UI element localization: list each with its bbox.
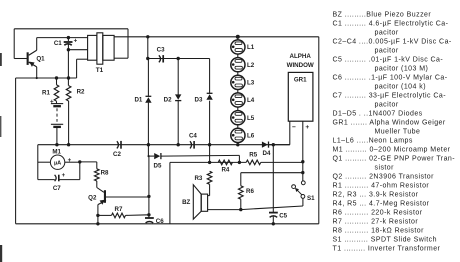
node R5 output junction [301, 160, 304, 163]
diode D1 [145, 96, 151, 102]
node battery mid-rail junction [55, 143, 58, 146]
svg-text:T1: T1 [96, 67, 104, 74]
node Q2 emitter R7 junction [96, 214, 99, 217]
transistor Q2 [98, 190, 106, 205]
resistor R1 [54, 78, 59, 103]
resistor R8 [95, 169, 100, 181]
svg-text:S1 .......... SPDT Slide Switc: S1 .......... SPDT Slide Switch [333, 236, 437, 243]
svg-text:D4: D4 [263, 150, 271, 157]
svg-text:T1 ......... Inverter Transfor: T1 ......... Inverter Transformer [333, 245, 441, 252]
wire R8 to Q2 base [97, 181, 104, 192]
wire R4-line down to ground [169, 162, 171, 223]
svg-text:D1–D5 . ..1N4007 Diodes: D1–D5 . ..1N4007 Diodes [333, 110, 423, 117]
svg-text:R6 .......... 220-k Resistor: R6 .......... 220-k Resistor [333, 209, 423, 216]
node lamp chain top [236, 35, 240, 39]
transistor Q1 [27, 50, 37, 67]
svg-text:Q1: Q1 [36, 55, 45, 62]
svg-text:L2: L2 [247, 62, 255, 69]
wire lamp stub L2-L3 [237, 72, 239, 76]
label T1 [96, 67, 104, 74]
resistor R3 [207, 171, 212, 184]
capacitor C7 [55, 175, 59, 182]
node HV rail junction [146, 35, 149, 38]
svg-text:+: + [74, 38, 78, 45]
node R6 bottom junction [239, 208, 242, 211]
node R6 wire junction [301, 171, 304, 174]
svg-text:R1 .......... 47-ohm Resistor: R1 .......... 47-ohm Resistor [333, 182, 430, 189]
buzzer BZ [193, 185, 207, 220]
wire Q1 collector to T1 primary top [37, 38, 88, 51]
svg-text:BZ .........Blue Piezo Buzzer: BZ .........Blue Piezo Buzzer [333, 11, 432, 18]
capacitor C5 [269, 213, 278, 218]
label Q2 [88, 195, 97, 202]
wire Q2 collector [106, 196, 149, 198]
label L2 [247, 62, 255, 69]
node L6 mid-rail junction [236, 143, 239, 146]
label BZ [182, 199, 190, 206]
meter M1 [50, 155, 64, 169]
svg-text:L5: L5 [247, 115, 255, 122]
svg-text:R4, R5 ... 4.7-Meg Resistor: R4, R5 ... 4.7-Meg Resistor [333, 200, 430, 207]
wire C5 branch [272, 145, 274, 224]
svg-text:L6: L6 [247, 133, 255, 140]
node R1 top junction [55, 76, 58, 79]
capacitor C4 [190, 141, 194, 149]
svg-text:+: + [50, 99, 54, 106]
svg-text:R2, R3 ... 3.9-k Resistor: R2, R3 ... 3.9-k Resistor [333, 191, 419, 198]
label L6 [247, 133, 255, 140]
wire Q1 emitter down [36, 67, 38, 78]
label C1 plus [74, 38, 78, 45]
label R2 [77, 89, 85, 96]
capacitor C3 [159, 55, 163, 62]
wire left ground vertical [15, 78, 17, 224]
wire meter left vertical [37, 145, 39, 180]
label R7 [115, 206, 123, 213]
wire lamp top stub [237, 37, 239, 40]
capacitor C2 [117, 141, 121, 149]
wire BZ bottom to S1 [208, 198, 303, 209]
resistor R2 [66, 86, 71, 101]
svg-text:C2: C2 [113, 151, 121, 158]
capacitor C1 [64, 38, 73, 50]
neon lamp L5 [231, 111, 245, 125]
wire C1 bottom down to R2 [67, 50, 69, 86]
switch S1 [292, 181, 305, 198]
svg-text:Q1 ......... 02-GE PNP Power T: Q1 ......... 02-GE PNP Power Tran- [333, 155, 456, 162]
wire right side vertical [318, 37, 320, 224]
wire lamp stub L4-L5 [237, 107, 239, 111]
wire D5 branch [149, 155, 240, 162]
svg-text:ALPHA: ALPHA [290, 53, 312, 60]
label C5 [279, 213, 287, 220]
label R1 [42, 89, 50, 96]
wire L6 bottom lead [237, 143, 239, 145]
label L1 [247, 44, 255, 51]
battery B1 [51, 104, 63, 127]
wire D2 leads [177, 59, 179, 145]
svg-text:R1: R1 [42, 89, 50, 96]
wire D1 leads [147, 59, 149, 145]
label L5 [247, 115, 255, 122]
wire T1 secondary to voltage doubler [147, 37, 149, 59]
label R5 [249, 152, 257, 159]
wire T1 primary bottom stub [77, 59, 88, 78]
svg-text:Mueller Tube: Mueller Tube [375, 128, 421, 135]
label alpha window [287, 53, 314, 69]
wire bottom ground rail [16, 223, 319, 225]
svg-text:C1: C1 [54, 40, 62, 47]
svg-text:pacitor: pacitor [375, 29, 399, 36]
wire mid rail y144.7 [38, 144, 290, 146]
svg-text:+: + [62, 173, 66, 179]
svg-text:D1: D1 [134, 97, 142, 104]
label meter plus [68, 157, 72, 164]
svg-text:Q2: Q2 [88, 195, 97, 202]
wire D1 node down to C6 [147, 145, 150, 219]
neon lamp L2 [231, 58, 245, 72]
label C3 [157, 47, 165, 54]
svg-text:C1 ......... 4.6-µF Electrolyt: C1 ......... 4.6-µF Electrolytic Ca- [333, 20, 449, 27]
svg-text:R6: R6 [246, 188, 254, 195]
wire emitter rail y78 [16, 77, 77, 79]
svg-text:µA: µA [54, 161, 61, 167]
label S1 [307, 195, 315, 202]
wire R2 bottom lead [68, 101, 70, 145]
node emitter junction [36, 77, 38, 79]
label battery plus [50, 99, 54, 106]
svg-text:R8: R8 [101, 169, 109, 176]
wire Q1 base lead [14, 58, 27, 60]
neon lamp L4 [231, 93, 245, 107]
neon lamp L1 [231, 40, 245, 54]
label R3 [194, 175, 202, 182]
wire left edge artifact [0, 53, 2, 262]
svg-text:L1: L1 [247, 44, 255, 51]
node Q2 emitter ground junction [96, 222, 99, 225]
wire lamp stub L5-L6 [237, 125, 239, 129]
svg-text:WINDOW: WINDOW [287, 62, 314, 69]
label D4 [263, 150, 271, 157]
svg-text:Q2 ......... 2N3906 Transistor: Q2 ......... 2N3906 Transistor [333, 173, 435, 180]
resistor R7 [112, 213, 126, 218]
svg-text:D2: D2 [164, 97, 172, 104]
node C1 top junction [67, 36, 70, 39]
wire top feedback loop [14, 29, 128, 59]
diode D5 [154, 153, 161, 159]
wire GR1 plus down [302, 121, 304, 181]
parts list [333, 11, 456, 252]
wire R3 R4 R5 line [170, 161, 303, 163]
node R4 R5 D5 junction [238, 161, 241, 164]
node C1 bottom junction [67, 48, 70, 51]
wire battery bottom lead [56, 128, 58, 145]
svg-text:R3: R3 [194, 175, 202, 182]
svg-text:M1: M1 [52, 148, 61, 155]
wire Q2 emitter down [97, 205, 99, 225]
node R2 top junction [67, 76, 70, 79]
svg-text:C7 ......... 33-µF Electrolyti: C7 ......... 33-µF Electrolytic Ca- [333, 92, 447, 99]
node C3 left junction [146, 57, 149, 60]
svg-text:pacitor: pacitor [375, 101, 399, 108]
svg-text:R2: R2 [77, 89, 85, 96]
label D2 [164, 97, 172, 104]
svg-text:+: + [305, 124, 309, 131]
wire C1 bottom to T1 primary mid [68, 49, 87, 51]
wire D3 leads [209, 59, 211, 145]
node D3 mid-rail junction [208, 143, 211, 146]
svg-text:C6 ......... .1-µF 100-V Mylar: C6 ......... .1-µF 100-V Mylar Ca- [333, 74, 448, 81]
resistor R4 [218, 160, 232, 165]
svg-text:D5: D5 [154, 163, 162, 170]
svg-text:BZ: BZ [182, 199, 190, 206]
wire R3 bottom to BZ top [208, 184, 210, 195]
label C4 [189, 133, 197, 140]
wire meter to R8 [80, 162, 97, 169]
svg-text:sistor: sistor [375, 164, 395, 171]
svg-text:pacitor (103 M): pacitor (103 M) [375, 65, 429, 72]
resistor R5 [246, 160, 261, 165]
resistor R6 [239, 186, 244, 199]
label L4 [247, 97, 255, 104]
label R6 [246, 188, 254, 195]
wire lamp stub L3-L4 [237, 90, 239, 94]
geiger tube GR1 [288, 72, 313, 121]
label GR1 plus [305, 124, 309, 131]
wire C7 wire [38, 179, 80, 181]
svg-text:pacitor: pacitor [375, 47, 399, 54]
label GR1 [294, 76, 307, 83]
svg-text:R7 .......... 27-k Resistor: R7 .......... 27-k Resistor [333, 218, 419, 225]
node R2 mid-rail junction [67, 143, 70, 146]
label L3 [247, 80, 255, 87]
svg-text:GR1: GR1 [294, 76, 307, 83]
svg-text:L4: L4 [247, 97, 255, 104]
wire meter left lead [38, 161, 51, 163]
node C3 right junction [177, 57, 180, 60]
node Q2 collector junction [147, 195, 150, 198]
node R3 top junction [208, 161, 211, 164]
svg-text:R4: R4 [221, 167, 229, 174]
wire R6 top wire [241, 173, 303, 186]
svg-text:L1–L6 .....Neon Lamps: L1–L6 .....Neon Lamps [333, 137, 413, 144]
diode D3 [206, 93, 212, 99]
node R7 C6 junction [147, 213, 150, 216]
label D1 [134, 97, 142, 104]
label C7 plus [62, 173, 66, 179]
wire R6 bottom lead [240, 199, 242, 209]
neon lamp L6 [231, 128, 245, 142]
svg-text:C6: C6 [156, 218, 164, 225]
wire D4 to GR1 minus [268, 121, 290, 145]
label Q1 [36, 55, 45, 62]
node D2 mid-rail junction [177, 143, 180, 146]
svg-text:S1: S1 [307, 195, 315, 202]
wire R3 node up to mid rail [209, 145, 211, 163]
label R4 [221, 167, 229, 174]
svg-text:−: − [292, 124, 296, 131]
label D3 [195, 97, 203, 104]
wire C3 D1 D2 D3 top wire [148, 58, 210, 60]
svg-text:C2–C4 ....0.005-µF 1-kV Disc C: C2–C4 ....0.005-µF 1-kV Disc Ca- [333, 38, 452, 45]
svg-text:C7: C7 [53, 185, 61, 192]
node D1 mid-rail junction [147, 143, 150, 146]
label C2 [113, 151, 121, 158]
svg-text:C5 ......... .01-µF 1-kV Disc: C5 ......... .01-µF 1-kV Disc Ca- [333, 56, 444, 63]
wire R7 line [98, 214, 149, 217]
svg-text:L3: L3 [247, 80, 255, 87]
svg-text:M1 ......... 0–200 Microamp Me: M1 ......... 0–200 Microamp Meter [333, 146, 451, 153]
svg-text:pacitor (104 k): pacitor (104 k) [375, 83, 427, 90]
node D5 branch junction [148, 155, 150, 157]
label GR1 minus [292, 124, 296, 131]
capacitor C6 [145, 218, 154, 223]
node C5 ground junction [272, 222, 275, 225]
label C1 [54, 40, 62, 47]
transformer T1 [88, 33, 115, 64]
svg-text:C4: C4 [189, 133, 197, 140]
svg-text:R7: R7 [115, 206, 123, 213]
label C7 [53, 185, 61, 192]
svg-text:R8 .......... 18-kΩ Resistor: R8 .......... 18-kΩ Resistor [333, 227, 425, 234]
wire meter right vertical [79, 162, 81, 180]
label C6 [156, 218, 164, 225]
node meter output junction [78, 160, 81, 163]
svg-text:R5: R5 [249, 152, 257, 159]
label R8 [101, 169, 109, 176]
svg-text:C3: C3 [157, 47, 165, 54]
node D4 output junction [272, 143, 275, 146]
wire meter right lead [65, 161, 80, 163]
label D5 [154, 163, 162, 170]
wire HV top rail [114, 36, 319, 38]
diode D2 [175, 94, 181, 100]
label M1 [52, 148, 61, 155]
wire lamp stub L1-L2 [237, 54, 239, 58]
svg-text:D3: D3 [195, 97, 203, 104]
svg-text:GR1 ....... Alpha Window Geige: GR1 ....... Alpha Window Geiger [333, 119, 446, 126]
diode D4 [262, 142, 269, 148]
neon lamp L3 [231, 75, 245, 89]
svg-text:C5: C5 [279, 213, 287, 220]
svg-text:+: + [68, 157, 72, 164]
